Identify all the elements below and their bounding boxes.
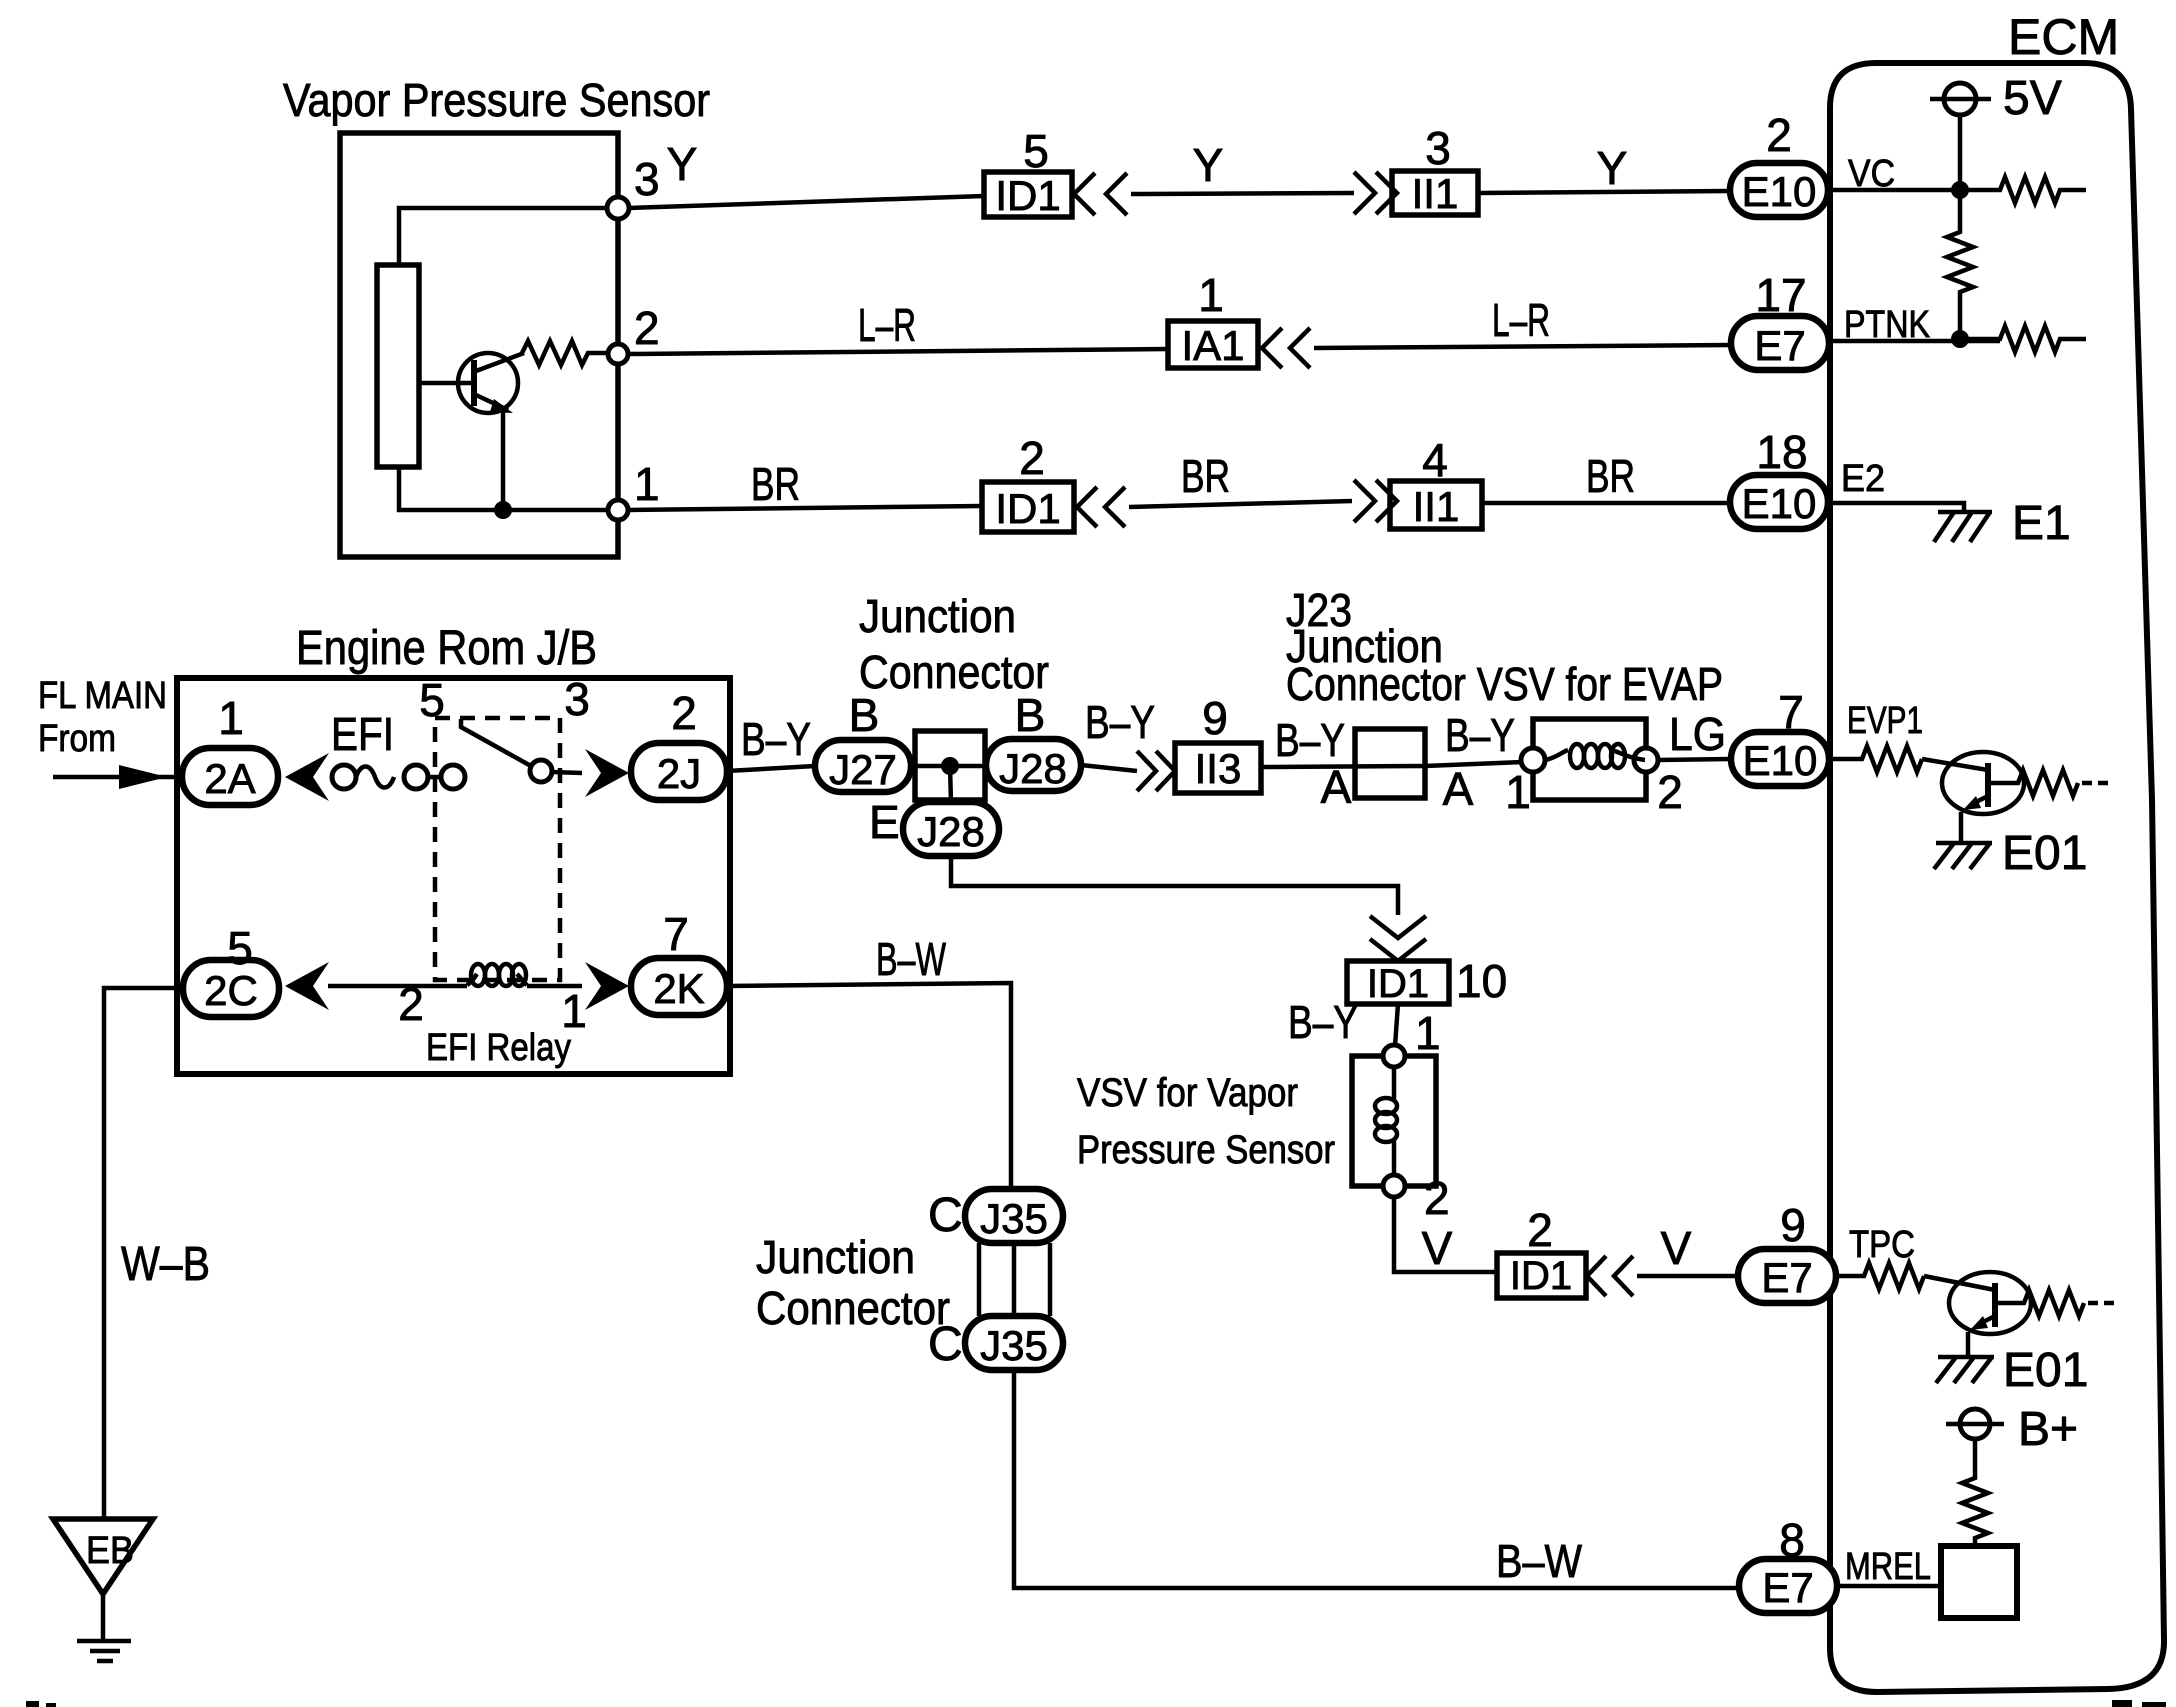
male chevrons before II1 [1354,172,1397,214]
svg-text:5: 5 [419,674,445,726]
svg-text:E01: E01 [2003,1344,2088,1397]
node dot VC [1951,181,1969,199]
connector ID1 pin2 [982,432,1074,532]
ECM pin E10-18 [1730,426,1828,529]
junction dot in sensor [494,501,512,519]
junction connector J35 top [965,1189,1063,1243]
svg-text:1: 1 [634,458,660,510]
ECM box [1830,63,2164,1692]
svg-text:A: A [1443,763,1474,815]
svg-text:2: 2 [1766,109,1792,161]
svg-text:A: A [1321,761,1352,813]
wire 2K to J35 [727,983,1011,1189]
svg-text:LG: LG [1669,708,1726,760]
resistor in sensor to pin2 [522,341,608,365]
svg-text:B–W: B–W [876,933,946,985]
svg-text:VSV for Vapor: VSV for Vapor [1077,1071,1298,1115]
wire [552,772,582,773]
svg-text:Y: Y [667,138,698,190]
svg-text:Pressure Sensor: Pressure Sensor [1077,1128,1335,1172]
svg-text:E01: E01 [2002,827,2087,880]
connector 2J pin2 [631,687,727,800]
wire and resistor B+ [1962,1439,1988,1546]
svg-text:IA1: IA1 [1181,322,1244,369]
black chevron right [585,749,629,797]
EFI relay coil [467,974,527,985]
VSV for Vapor Pressure Sensor [1352,1045,1436,1197]
svg-text:Engine Rom J/B: Engine Rom J/B [296,622,597,675]
svg-text:Connector VSV for EVAP: Connector VSV for EVAP [1286,658,1723,710]
5V supply [1930,72,2062,125]
svg-text:ID1: ID1 [995,485,1060,532]
wire J35 down to MREL row [1014,1370,1739,1588]
svg-text:C: C [928,1189,963,1242]
svg-text:BR: BR [1586,450,1635,502]
svg-text:1: 1 [1505,766,1531,818]
transistor Q2 EVP1 [1922,752,2108,843]
fuse EFI [331,708,428,789]
svg-text:E7: E7 [1761,1254,1812,1301]
svg-text:E7: E7 [1754,322,1805,369]
sensor piezo resistor [377,265,419,467]
black chevron right [585,962,629,1010]
svg-text:ID1: ID1 [995,172,1060,219]
svg-text:Y: Y [1597,142,1628,194]
wire [1131,193,1354,194]
female chevrons after ID1 [1077,487,1125,527]
ground E1 [1934,497,2071,550]
connector II1 pin3 [1392,122,1478,217]
wire [428,775,441,780]
male chevrons before II3 [1137,751,1175,791]
svg-text:Junction: Junction [859,590,1016,642]
switch arm [461,719,531,766]
black chevron left [285,962,329,1010]
svg-text:E10: E10 [1743,737,1818,784]
wire dot to J28E [950,766,951,803]
svg-text:B: B [1015,689,1046,741]
junction connector J28 (B) [986,689,1081,792]
node dot [941,757,959,775]
wire VSV to ID1 [1394,1197,1497,1272]
connector 2A pin1 [182,692,278,805]
svg-text:2J: 2J [657,750,701,797]
svg-text:E10: E10 [1742,480,1817,527]
svg-text:7: 7 [1778,686,1804,738]
wire VC [1828,177,2086,203]
transistor Q3 TPC [1924,1272,2114,1357]
input wire [53,775,182,780]
svg-text:B–W: B–W [1496,1535,1582,1587]
wire 5V to VC node [1958,115,1963,190]
svg-text:2: 2 [634,302,660,354]
wire [328,984,467,989]
connector 2K pin7 [631,908,727,1015]
svg-text:From: From [38,718,116,760]
svg-text:B: B [849,689,880,741]
wire row3 sensor to ID1 [629,506,982,510]
wire [1314,345,1731,348]
switch contact right [530,760,552,782]
wire [1482,501,1730,506]
B+ supply [1946,1403,2078,1456]
connector ID1 pin5 [984,125,1072,219]
transistor Q1 in sensor [419,353,524,510]
svg-text:2K: 2K [653,965,704,1012]
ground E01 [1934,827,2087,880]
svg-text:2: 2 [1019,432,1045,484]
svg-text:B+: B+ [2018,1403,2078,1456]
Engine Room J/B box [177,678,730,1074]
wire II3 to J23 square [1261,766,1425,767]
svg-text:II1: II1 [1412,170,1459,217]
svg-text:7: 7 [663,908,689,960]
wires at square [911,764,986,769]
connector ID1 pin10 [1347,955,1507,1007]
svg-text:2A: 2A [204,755,255,802]
svg-text:L–R: L–R [1492,294,1550,346]
svg-text:3: 3 [1425,122,1451,174]
svg-text:5: 5 [1023,125,1049,177]
pin 2 [608,344,628,364]
svg-text:J28: J28 [917,808,985,855]
svg-text:B–Y: B–Y [1445,709,1515,761]
ECM pin E10-2 [1730,109,1828,217]
svg-text:1: 1 [1198,269,1224,321]
wire J28E down and right [951,856,1398,915]
pin 1 [608,500,628,520]
svg-text:Vapor Pressure Sensor: Vapor Pressure Sensor [283,74,710,126]
wire 2C to W-B [104,988,183,1519]
svg-text:L–R: L–R [858,299,916,351]
svg-text:2: 2 [1527,1204,1553,1256]
J23 junction square [1355,729,1425,798]
svg-text:10: 10 [1456,955,1507,1007]
ECM pin E10-7 [1731,686,1829,786]
svg-text:2C: 2C [204,967,258,1014]
svg-text:Junction: Junction [756,1231,915,1283]
connector 2C pin5 [183,922,279,1017]
MREL relay box [1941,1546,2017,1618]
svg-text:3: 3 [564,673,590,725]
junction connector J35 bottom [965,1316,1063,1370]
svg-text:2: 2 [1657,766,1683,818]
svg-text:EFI Relay: EFI Relay [426,1027,571,1069]
svg-text:B–Y: B–Y [1288,996,1358,1048]
svg-text:E7: E7 [1762,1564,1813,1611]
wire [527,984,582,989]
wire row2 sensor to IA1 [629,349,1167,354]
vapor pressure sensor box [340,133,618,557]
svg-text:E: E [869,796,900,848]
page edge artifact bottom-left [26,1701,56,1707]
node dot PTNK [1951,330,1969,348]
male chevrons down before ID1-10 [1370,916,1426,961]
svg-text:J27: J27 [829,746,897,793]
pin 3 [607,197,629,219]
EFI relay dashed box [435,718,560,980]
ground E01 (TPC) [1936,1344,2088,1397]
svg-text:PTNK: PTNK [1844,304,1930,346]
svg-text:J35: J35 [980,1195,1048,1242]
svg-text:MREL: MREL [1845,1546,1931,1588]
svg-text:5V: 5V [2003,72,2062,125]
ECM pin E7-17 [1731,269,1829,370]
wire ID1 to VSV [1395,1004,1398,1046]
svg-text:4: 4 [1422,434,1448,486]
VSV for EVAP coil [1521,719,1658,800]
svg-text:II3: II3 [1195,745,1242,792]
svg-text:EB: EB [86,1530,134,1572]
svg-text:3: 3 [634,153,660,205]
junction connector J28 (E) [869,796,999,856]
male chevrons before II1 [1354,480,1397,522]
svg-text:2: 2 [1424,1172,1450,1224]
svg-text:1: 1 [218,692,244,744]
connector IA1 pin1 [1168,269,1258,369]
page edge artifact bottom-right [2112,1700,2166,1707]
wire MREL [1837,1584,1941,1589]
EVP1 resistor [1829,746,1922,772]
switch contact [441,765,465,789]
svg-text:9: 9 [1202,692,1228,744]
wire pin3 to resistor top [399,208,608,265]
svg-text:5: 5 [227,922,253,974]
svg-text:2: 2 [671,687,697,739]
wire E2 to ground [1828,503,1964,511]
ECM pin E7-9 [1738,1199,1836,1303]
svg-text:1: 1 [1415,1007,1441,1059]
svg-text:J35: J35 [980,1322,1048,1369]
svg-text:FL MAIN: FL MAIN [38,675,167,717]
wire VSV to E10 [1658,759,1731,760]
svg-text:ID1: ID1 [1367,962,1429,1006]
svg-text:BR: BR [1181,450,1230,502]
wire [1478,191,1730,193]
svg-text:8: 8 [1779,1514,1805,1566]
wire [1129,501,1352,507]
wire to E7 [1637,1274,1738,1279]
svg-text:9: 9 [1780,1199,1806,1251]
wire resistor bottom to pin1 [399,467,608,510]
svg-text:ECM: ECM [2008,9,2119,65]
junction connector J27 [815,689,911,793]
wire row1 sensor to ID1 [629,196,984,208]
svg-text:C: C [928,1318,963,1371]
connector ID1 pin2 (TPC) [1497,1204,1586,1298]
junction square [915,731,985,800]
svg-text:ID1: ID1 [1510,1254,1572,1298]
wire PTNK [1828,326,2086,352]
svg-text:J28: J28 [999,745,1067,792]
female chevrons after ID1 [1587,1256,1633,1296]
svg-text:E2: E2 [1841,458,1885,500]
svg-text:E1: E1 [2012,497,2071,550]
black chevron left [285,753,329,801]
input arrow [119,765,167,789]
ECM pin E7-8 [1739,1514,1837,1613]
svg-text:B–Y: B–Y [1085,696,1155,748]
svg-text:B–Y: B–Y [1275,714,1345,766]
svg-text:E10: E10 [1742,168,1817,215]
svg-text:Y: Y [1193,139,1224,191]
wire J23 to VSV [1425,762,1523,766]
TPC resistor [1836,1263,1924,1289]
connector II1 pin4 [1390,434,1482,530]
svg-text:2: 2 [398,978,424,1030]
svg-text:17: 17 [1755,269,1806,321]
svg-text:V: V [1422,1222,1453,1274]
female chevrons after IA1 [1262,328,1310,368]
wire 2J to J27 [727,766,815,771]
ground EB triangle [53,1519,153,1661]
svg-text:V: V [1661,1222,1692,1274]
female chevrons after ID1 [1074,173,1127,215]
svg-text:18: 18 [1756,426,1807,478]
connector II3 pin9 [1175,692,1261,793]
svg-text:EVP1: EVP1 [1847,700,1923,742]
svg-text:W–B: W–B [121,1238,210,1291]
svg-text:II1: II1 [1413,483,1460,530]
resistor vertical VC to PTNK [1947,190,1973,339]
J35 ladder rails [979,1243,1050,1316]
svg-text:B–Y: B–Y [741,713,811,765]
svg-text:Connector: Connector [756,1282,950,1334]
svg-text:TPC: TPC [1849,1224,1915,1266]
svg-text:BR: BR [751,458,800,510]
svg-text:EFI: EFI [331,708,394,760]
